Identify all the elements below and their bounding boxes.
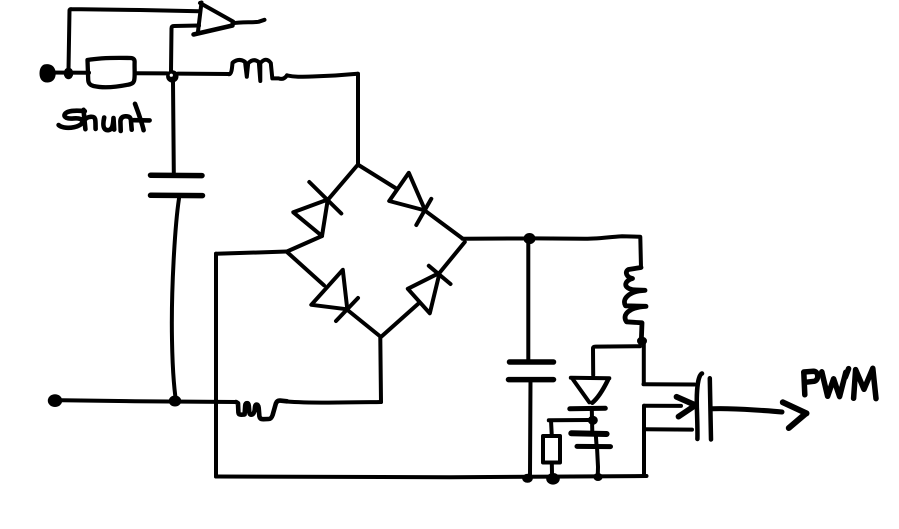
label PWM bbox=[804, 368, 876, 398]
diode D3 bbox=[311, 270, 358, 321]
wire bridge top-right edge bbox=[359, 165, 398, 189]
wire bbox=[528, 380, 533, 475]
wire MOSFET source return bbox=[642, 406, 646, 475]
wire gate lead bbox=[713, 409, 783, 412]
resistor R1 bbox=[543, 436, 560, 463]
wire bbox=[440, 242, 465, 273]
node shunt junction bbox=[166, 70, 178, 82]
wire bbox=[43, 71, 89, 75]
label Shunt bbox=[59, 104, 150, 131]
wire inverting input bbox=[171, 26, 199, 72]
op-amp U1 bbox=[194, 3, 234, 35]
transistor Q1 bbox=[644, 374, 712, 440]
diode D4 bbox=[408, 266, 451, 314]
wire bbox=[535, 236, 640, 239]
inductor L3 bbox=[236, 401, 287, 420]
wire op-amp output bbox=[233, 20, 265, 24]
wire MOSFET drain feed bbox=[642, 342, 646, 384]
wire bbox=[594, 435, 599, 447]
wire bbox=[135, 71, 167, 75]
wire bbox=[69, 9, 200, 70]
wire bbox=[348, 310, 381, 337]
wire bbox=[287, 402, 381, 403]
wire bbox=[378, 338, 383, 402]
wire bridge bottom-left edge bbox=[287, 252, 324, 285]
wire bbox=[172, 199, 179, 397]
wire bbox=[638, 237, 643, 268]
wire bbox=[550, 463, 554, 473]
wire bbox=[425, 211, 462, 239]
wire bbox=[593, 346, 640, 375]
wire bbox=[526, 244, 530, 362]
wire bbox=[590, 410, 595, 433]
diode D2 bbox=[389, 173, 431, 225]
node bbox=[169, 396, 182, 407]
zener diode D5 bbox=[570, 378, 610, 409]
wire bbox=[178, 72, 229, 76]
wire bridge bottom-right edge bbox=[382, 303, 419, 336]
node bbox=[522, 474, 533, 483]
wire bbox=[62, 400, 236, 402]
capacitor C3 bbox=[571, 433, 610, 446]
input terminal top-left bbox=[40, 64, 56, 82]
node knot bbox=[588, 416, 598, 425]
wire bbox=[597, 447, 598, 475]
inductor L2 bbox=[624, 268, 646, 342]
wire bridge top-left edge bbox=[328, 165, 358, 200]
node bbox=[637, 337, 647, 346]
wire bbox=[356, 74, 360, 166]
input terminal bottom-left bbox=[48, 394, 62, 407]
inductor L1 bbox=[229, 60, 287, 81]
wire bbox=[171, 82, 176, 173]
wire left return vertical bbox=[214, 254, 218, 477]
wire bbox=[287, 74, 358, 77]
diode D1 bbox=[293, 182, 341, 236]
node bbox=[546, 473, 560, 485]
wire bridge right stub bbox=[463, 237, 525, 241]
wire bottom bus bbox=[216, 476, 647, 477]
capacitor C2 bbox=[509, 362, 554, 380]
node DC output junction bbox=[524, 233, 536, 244]
junction bbox=[64, 68, 74, 80]
arrow PWM bbox=[783, 402, 807, 428]
wire bbox=[549, 421, 554, 436]
resistor Shunt bbox=[88, 58, 135, 87]
capacitor C1 bbox=[151, 175, 203, 195]
node bbox=[593, 473, 602, 481]
wire resistor tap bbox=[549, 418, 589, 422]
wire bridge left stub bbox=[216, 252, 287, 254]
wire bbox=[287, 236, 322, 252]
